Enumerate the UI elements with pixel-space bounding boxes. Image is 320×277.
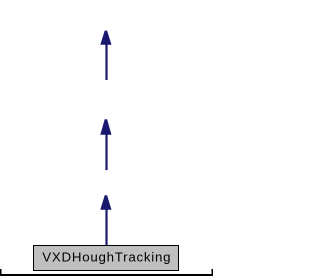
bottom-right corner tick [212,269,214,276]
svg-text:VXDHoughTracking: VXDHoughTracking [42,250,171,265]
bottom horizontal line [0,274,213,276]
arrow edge 1 (top) [100,31,111,80]
arrow edge 3 (bottom) [100,195,111,245]
arrow edge 2 (middle) [100,119,111,170]
node box VXDHoughTracking [34,246,179,271]
inheritance graph for class VXDHoughTracking [0,0,213,277]
bottom-left corner tick [0,269,2,276]
